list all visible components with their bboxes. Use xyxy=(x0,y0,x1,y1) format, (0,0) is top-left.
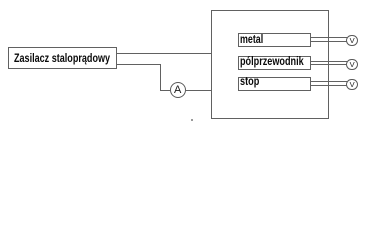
label: Zasilacz staloprądowy xyxy=(14,53,110,63)
stray dot artifact xyxy=(191,119,193,121)
sample box: stop xyxy=(238,77,311,92)
power supply box: Zasilacz staloprądowy xyxy=(8,47,117,69)
wire pair: polprzewodnik to voltmeter V2 (upper) xyxy=(311,61,347,62)
wire pair: metal to voltmeter V1 (lower) xyxy=(311,41,347,42)
wire pair: polprzewodnik to voltmeter V2 (lower) xyxy=(311,64,347,65)
label: stop xyxy=(240,76,259,86)
wire pair: stop to voltmeter V3 (upper) xyxy=(311,81,347,82)
wire: supply output bottom horizontal xyxy=(117,64,161,65)
ammeter A xyxy=(170,82,186,98)
wire: into ammeter left terminal xyxy=(160,90,170,91)
chamber box (outer enclosure) xyxy=(211,10,329,119)
sample box: metal xyxy=(238,33,311,47)
label: metal xyxy=(240,34,263,44)
wire pair: metal to voltmeter V1 (upper) xyxy=(311,37,347,38)
voltmeter V3 xyxy=(346,79,358,91)
wire: vertical drop to ammeter xyxy=(160,64,161,91)
label: polprzewodnik xyxy=(240,56,304,66)
voltmeter V2 xyxy=(346,59,358,71)
voltmeter V1 xyxy=(346,35,358,47)
sample box: polprzewodnik xyxy=(238,56,311,71)
wire: supply output top to chamber left edge xyxy=(117,53,212,54)
wire: ammeter right terminal to chamber left edge xyxy=(186,90,212,91)
wire pair: stop to voltmeter V3 (lower) xyxy=(311,85,347,86)
